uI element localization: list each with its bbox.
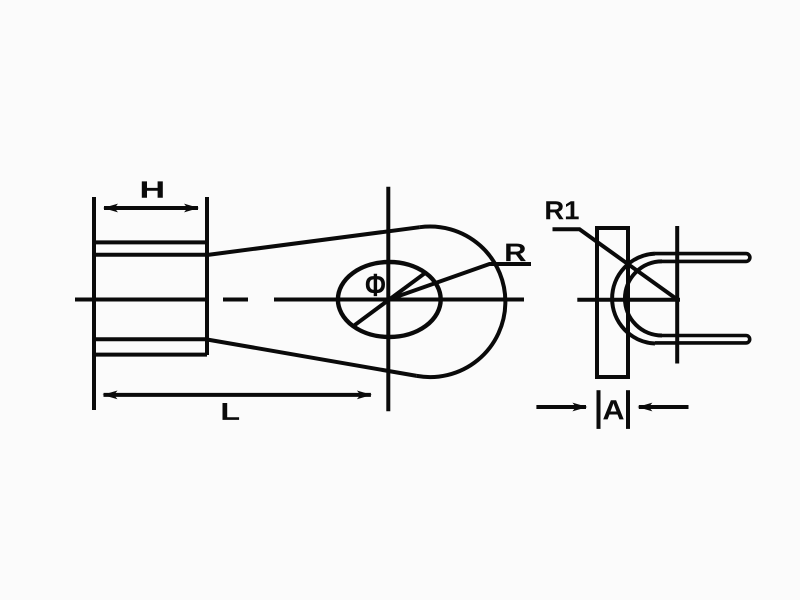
right view: horizontal centerline [577,298,680,302]
left view: horizontal centerline (dash-dot) [75,298,524,302]
R1 leader line [553,229,678,299]
left view: barrel right edge vertical line [205,197,209,355]
left view: bottom taper line to ring [207,340,417,376]
right view: top prong [655,254,750,262]
label R1 [546,201,579,219]
left view: barrel bottom inner wall line [95,337,207,341]
dimension A right tick [626,390,630,429]
right view: plate rectangle [597,228,628,377]
right view: bottom prong [655,336,750,343]
left view: barrel top inner wall line [95,253,207,257]
left view: hole ellipse [338,262,441,337]
label L [223,403,240,420]
dimension A right arrow [637,403,688,412]
left view: hole diameter line [353,273,425,326]
dimension A left arrow [536,403,587,412]
right view: horseshoe outer arc [612,254,655,344]
label A [603,400,624,419]
left view: left extension line [92,197,96,410]
left view: top taper line to ring [207,227,420,255]
dimension A left tick [597,390,601,429]
left view: barrel bottom outer wall line [95,353,207,357]
left view: barrel top outer wall line [95,240,207,244]
left view: ring outer arc [417,226,506,377]
dimension L arrow [103,391,372,400]
dimension H arrow [103,204,199,213]
right view: horseshoe inner arc [625,261,662,335]
label H [142,181,163,197]
left view: vertical axis line [386,187,390,412]
label R [506,244,526,262]
right view: vertical centerline [675,226,679,364]
left view: R radius leader line [389,264,531,300]
label phi [366,274,385,296]
